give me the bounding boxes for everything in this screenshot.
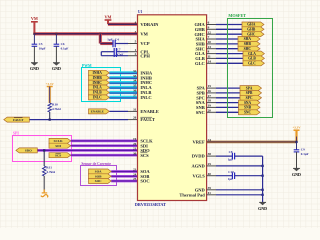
wire gnd bus vertical	[262, 156, 264, 202]
junction VM rail / C6	[55, 33, 57, 35]
svg-text:GND: GND	[258, 206, 267, 211]
port GLB	[243, 56, 264, 61]
svg-text:25: 25	[133, 177, 137, 181]
svg-text:VM: VM	[31, 16, 38, 21]
junction SDO / R11	[43, 149, 45, 151]
wire AGND to gnd bus	[216, 165, 263, 167]
svg-text:GLA: GLA	[248, 52, 256, 56]
wire C5 lower lead	[33, 46, 35, 62]
svg-text:SCS: SCS	[55, 153, 61, 157]
svg-text:C7: C7	[117, 48, 121, 52]
wire SHA wire	[216, 38, 238, 40]
svg-text:C4: C4	[115, 37, 119, 41]
svg-text:34: 34	[133, 79, 137, 83]
wire C9 to GND	[296, 152, 298, 169]
pin name FAULT	[140, 117, 155, 122]
wire VREF wire	[207, 141, 297, 144]
port GHB	[242, 27, 264, 32]
wire +3.3V stem to VREF	[295, 130, 297, 142]
port GLA	[243, 51, 264, 56]
svg-text:GLC: GLC	[248, 62, 256, 66]
svg-text:14: 14	[208, 59, 212, 63]
wire C7 left link vertical	[100, 52, 102, 56]
wire SPA wire	[216, 87, 240, 89]
wire +3.3V stem to R10	[49, 87, 51, 104]
svg-text:10: 10	[208, 40, 212, 44]
svg-text:SOA: SOA	[95, 170, 102, 174]
svg-text:30: 30	[133, 151, 137, 155]
pin name INLA	[140, 85, 152, 90]
svg-text:DVDD: DVDD	[192, 154, 206, 159]
port SNC	[239, 110, 261, 115]
capacitor C7	[113, 48, 115, 57]
box MOSFET group	[228, 19, 273, 118]
pin stub SNA	[207, 102, 216, 104]
svg-text:41: 41	[208, 191, 212, 195]
pin name INHB	[140, 75, 152, 80]
port SOC	[89, 179, 112, 184]
svg-text:0.1µF: 0.1µF	[301, 152, 309, 156]
svg-text:GND: GND	[52, 66, 61, 71]
wire GLC wire	[216, 62, 243, 64]
svg-text:40: 40	[208, 172, 212, 176]
port INLA	[89, 85, 110, 90]
pin name GHA	[195, 22, 206, 27]
svg-text:VCP: VCP	[140, 41, 149, 46]
wire SPB wire	[216, 92, 240, 94]
pin stub Thermal Pad	[207, 194, 216, 196]
junction VM rail / VCP branch	[99, 33, 101, 35]
pin stub VGLS	[207, 175, 216, 177]
power port wave ground (R11)	[41, 193, 48, 198]
wire R10 to FAULT net	[49, 112, 51, 120]
svg-text:18: 18	[208, 99, 212, 103]
svg-text:VREF: VREF	[193, 140, 206, 145]
pin name VDRAIN	[140, 22, 159, 27]
pin stub CPH	[128, 55, 138, 57]
wire C6 lower lead	[55, 46, 57, 62]
pin name SHC	[196, 46, 205, 51]
capacitor C10	[231, 172, 233, 179]
svg-text:GHA: GHA	[247, 23, 256, 27]
svg-text:GLB: GLB	[248, 57, 256, 61]
pin stub FAULT	[128, 119, 138, 121]
box Sensor de Corrente group	[81, 166, 117, 186]
svg-text:13: 13	[208, 45, 212, 49]
ground GND under C5	[30, 63, 39, 71]
pin name SPC	[196, 95, 205, 100]
wire SHB wire	[216, 43, 238, 45]
svg-text:GHC: GHC	[247, 32, 256, 36]
junction bus / GND	[261, 189, 263, 191]
svg-text:SPC: SPC	[246, 96, 253, 100]
svg-text:SHC: SHC	[244, 47, 252, 51]
svg-text:SDO: SDO	[25, 149, 32, 153]
port SPB	[240, 90, 262, 95]
junction VREF / C9	[295, 141, 297, 143]
wire ENABLE wire	[109, 110, 128, 112]
pin name SOC	[140, 179, 149, 184]
wire C4 to VCP pin	[115, 43, 128, 45]
port INHB	[89, 75, 110, 80]
pin name DVDD	[192, 154, 206, 159]
wire VM power stem	[33, 22, 35, 34]
wire GLB wire	[216, 57, 243, 59]
svg-text:36: 36	[133, 89, 137, 93]
svg-text:19: 19	[208, 104, 212, 108]
svg-text:CPH: CPH	[140, 53, 150, 58]
svg-text:ENABLE: ENABLE	[91, 110, 104, 114]
wire SNC wire	[216, 111, 239, 113]
svg-text:17: 17	[208, 94, 212, 98]
pin name GLA	[195, 51, 206, 56]
svg-text:33: 33	[133, 74, 137, 78]
svg-text:32: 32	[133, 69, 137, 73]
ground GND under C9	[292, 168, 301, 176]
wire INHB	[109, 76, 137, 80]
svg-text:39: 39	[208, 186, 212, 190]
wire VGLS to C10	[216, 175, 232, 177]
wire C7 left link horizontal	[101, 51, 114, 53]
svg-text:+3.3V: +3.3V	[292, 126, 301, 130]
svg-text:INLA: INLA	[93, 86, 102, 90]
svg-text:C6: C6	[61, 42, 65, 46]
svg-text:MOSFET: MOSFET	[228, 13, 246, 18]
svg-text:SOC: SOC	[95, 179, 102, 183]
svg-text:INLC: INLC	[93, 96, 102, 100]
svg-text:16: 16	[208, 89, 212, 93]
svg-text:11: 11	[208, 55, 211, 59]
box PWM group	[82, 68, 121, 102]
power port +3.3V (R10)	[46, 82, 55, 87]
svg-text:SNA: SNA	[244, 101, 252, 105]
pin name SNC	[196, 110, 205, 115]
svg-text:Thermal Pad: Thermal Pad	[179, 192, 205, 197]
svg-text:SDI: SDI	[55, 144, 61, 148]
wire INHA	[109, 71, 137, 75]
wire C6 upper lead	[55, 34, 57, 44]
svg-text:INLB: INLB	[93, 91, 102, 95]
wire GHC wire	[216, 33, 242, 35]
power port +3.3V (VREF)	[292, 126, 301, 131]
port SOB	[89, 174, 112, 179]
resistor R10	[48, 103, 61, 112]
svg-text:AGND: AGND	[192, 164, 206, 169]
wire GLA wire	[216, 53, 243, 55]
svg-text:C5: C5	[39, 42, 43, 46]
pin stub GLB	[207, 57, 216, 59]
wire SPC wire	[216, 97, 240, 99]
svg-text:19: 19	[133, 137, 137, 141]
wire GND pin to bus	[216, 189, 263, 191]
pin name SDI	[140, 143, 148, 148]
svg-text:GND: GND	[292, 172, 301, 177]
svg-text:VM: VM	[105, 14, 112, 19]
pin name SNB	[196, 105, 205, 110]
pin stub SNB	[207, 106, 216, 108]
svg-text:U1: U1	[138, 10, 143, 14]
wire VREF to C9	[296, 142, 298, 150]
capacitor C6	[54, 42, 69, 51]
wire INLC	[109, 96, 137, 100]
port INHC	[89, 80, 110, 85]
power port VM (left)	[31, 16, 38, 22]
port ENABLE	[89, 109, 110, 114]
wire INLB	[109, 91, 137, 95]
svg-text:26: 26	[133, 116, 137, 120]
svg-text:INHB: INHB	[93, 76, 103, 80]
port INLC	[89, 95, 110, 100]
svg-text:35: 35	[133, 84, 137, 88]
svg-text:VM: VM	[140, 31, 148, 36]
svg-text:0.1µF: 0.1µF	[61, 46, 69, 50]
pin stub SHC	[207, 48, 216, 50]
pin name SNA	[196, 100, 206, 105]
wire SNB wire	[216, 106, 239, 108]
svg-text:GHB: GHB	[247, 28, 256, 32]
svg-text:15: 15	[208, 84, 212, 88]
junction bus / Thermal pad	[261, 194, 263, 196]
wire VM rail horizontal	[34, 32, 137, 35]
port SCLK	[49, 138, 71, 143]
port SDI	[49, 143, 71, 148]
wire SDO wire	[37, 149, 137, 152]
pin name INLB	[140, 90, 151, 95]
wire CPH wire	[101, 55, 128, 57]
port SHC	[238, 46, 260, 51]
svg-text:SOC: SOC	[140, 179, 149, 184]
svg-text:C9: C9	[301, 147, 305, 151]
wire FAULT wire	[29, 119, 128, 121]
ground GND bottom right	[258, 202, 267, 210]
pin name VGLS	[193, 173, 206, 178]
pin name ENABLE	[140, 109, 159, 114]
ground GND under C6	[52, 63, 61, 71]
port SHA	[238, 37, 260, 42]
wire VM VDRAIN stem	[107, 20, 109, 24]
port GLC	[243, 61, 264, 66]
svg-text:4.7kΩ: 4.7kΩ	[52, 107, 61, 111]
svg-text:ENABLE: ENABLE	[140, 109, 159, 114]
svg-text:21: 21	[133, 147, 137, 151]
wire VCP branch vertical	[99, 34, 102, 44]
pin name GLB	[195, 56, 205, 61]
svg-text:VGLS: VGLS	[193, 173, 206, 178]
pin stub GLA	[207, 53, 216, 55]
svg-text:INHA: INHA	[93, 71, 103, 75]
pin stub GLC	[207, 62, 216, 64]
svg-text:SNB: SNB	[244, 106, 252, 110]
junction bus / VGLS	[261, 175, 263, 177]
wire DVDD to C8	[216, 155, 232, 157]
svg-text:SOB: SOB	[95, 175, 102, 179]
svg-text:SCLK: SCLK	[54, 139, 63, 143]
svg-text:20: 20	[133, 142, 137, 146]
wire SCS wire	[71, 154, 138, 157]
port SDO	[16, 148, 37, 153]
pin name CPL	[140, 49, 149, 54]
pin stub CPL	[128, 51, 138, 53]
wire VCP branch horizontal	[100, 42, 112, 45]
pin name SOA	[140, 169, 150, 174]
wire GHA wire	[216, 24, 242, 26]
wire CPL wire	[116, 51, 128, 53]
pin name GND	[195, 187, 206, 192]
pin name SHB	[196, 42, 205, 47]
svg-text:25: 25	[208, 162, 212, 166]
pin stub SHB	[207, 43, 216, 45]
svg-text:4.7kΩ: 4.7kΩ	[46, 170, 55, 174]
svg-text:SHA: SHA	[244, 37, 252, 41]
svg-text:20: 20	[208, 108, 212, 112]
wire C10 to gnd bus	[235, 175, 263, 177]
wire SDI wire	[71, 144, 138, 147]
pin name INHA	[140, 70, 153, 75]
port SOA	[89, 169, 112, 174]
pin name CPH	[140, 53, 150, 58]
svg-text:12: 12	[208, 30, 212, 34]
svg-text:31: 31	[133, 108, 137, 112]
port SNA	[239, 100, 261, 105]
junction bus / AGND	[261, 165, 263, 167]
svg-text:GND: GND	[30, 66, 39, 71]
box SPI group	[13, 136, 72, 162]
capacitor C9	[294, 147, 309, 156]
svg-text:24: 24	[133, 172, 137, 176]
svg-text:37: 37	[133, 94, 137, 98]
svg-text:SHB: SHB	[244, 42, 252, 46]
wire Thermal pad to bus	[216, 194, 263, 196]
pin name Thermal Pad	[179, 192, 205, 197]
wire GHB wire	[216, 28, 242, 30]
port SPA	[240, 86, 262, 91]
pin name AGND	[192, 164, 206, 169]
svg-text:1µF: 1µF	[107, 37, 112, 41]
svg-text:38: 38	[208, 152, 212, 156]
svg-text:23: 23	[133, 168, 137, 172]
pin name INHC	[140, 80, 152, 85]
pin stub SPA	[207, 87, 216, 89]
port SNB	[239, 105, 261, 110]
svg-text:1µF: 1µF	[228, 158, 233, 162]
port SCS	[49, 153, 71, 158]
pin stub VCP	[128, 43, 138, 45]
svg-text:SCS: SCS	[140, 153, 149, 158]
port INLB	[89, 90, 110, 95]
wire VDRAIN wire	[108, 23, 138, 26]
pin name VREF	[193, 140, 206, 145]
pin name SPA	[197, 86, 206, 91]
pin name GHC	[195, 32, 205, 37]
resistor R11	[43, 166, 56, 176]
pin name SHA	[196, 37, 206, 42]
pin stub SHA	[207, 38, 216, 40]
pin name SOB	[140, 174, 149, 179]
svg-text:SNC: SNC	[244, 111, 252, 115]
port GHA	[242, 22, 264, 27]
svg-text:DRV8353SRTAT: DRV8353SRTAT	[135, 202, 166, 207]
port INHA	[89, 70, 110, 75]
svg-text:C8: C8	[229, 150, 233, 154]
svg-text:GLC: GLC	[195, 61, 205, 66]
svg-text:47nF: 47nF	[117, 53, 124, 57]
port SPC	[240, 95, 262, 100]
svg-text:INLC: INLC	[140, 95, 151, 100]
wire C8 to gnd bus	[235, 155, 263, 157]
pin name SCS	[140, 153, 149, 158]
svg-text:C10: C10	[228, 170, 234, 174]
pin stub GHA	[207, 24, 216, 26]
wire SOB wire	[111, 175, 137, 178]
svg-text:INHC: INHC	[93, 81, 103, 85]
capacitor C5	[32, 42, 46, 51]
svg-text:SNC: SNC	[196, 110, 205, 115]
capacitor C8	[231, 153, 233, 160]
pin name SCLK	[140, 139, 153, 144]
pin stub DVDD	[207, 155, 216, 157]
pin name SDO	[140, 148, 150, 153]
svg-text:1µF: 1µF	[228, 177, 233, 181]
pin stub GND	[207, 189, 216, 191]
pin name SPB	[197, 91, 205, 96]
pin stub GHB	[207, 28, 216, 30]
svg-text:+3.3V: +3.3V	[46, 82, 55, 86]
svg-text:SPB: SPB	[246, 91, 253, 95]
pin stub SPC	[207, 97, 216, 99]
wire SDO to R11	[43, 150, 45, 166]
capacitor C4	[112, 40, 114, 47]
wire SOA wire	[111, 170, 137, 173]
pin name GHB	[195, 27, 205, 32]
svg-text:FAULT: FAULT	[13, 118, 24, 122]
wire C5 upper lead	[33, 34, 35, 44]
pin name GLC	[195, 61, 205, 66]
svg-text:24: 24	[208, 138, 212, 142]
wire INHC	[109, 81, 137, 85]
port GHC	[242, 32, 264, 37]
power port VM (VDRAIN)	[105, 14, 112, 20]
pin stub ENABLE	[128, 110, 138, 112]
svg-text:SPA: SPA	[246, 86, 253, 90]
pin name VM	[140, 31, 148, 36]
junction VM rail / C5	[33, 33, 35, 35]
pin stub SPB	[207, 92, 216, 94]
junction FAULT / R10	[49, 118, 51, 120]
svg-text:VDRAIN: VDRAIN	[140, 22, 159, 27]
pin name INLC	[140, 95, 151, 100]
wire SOC wire	[111, 180, 137, 183]
pin stub SNC	[207, 111, 216, 113]
pin stub AGND	[207, 165, 216, 167]
wire R11 wave stem	[43, 190, 45, 193]
op-amp/driver IC U1 body	[138, 15, 207, 201]
wire SCLK wire	[71, 140, 138, 143]
wire SNA wire	[216, 102, 239, 104]
wire SHC wire	[216, 48, 238, 50]
wire INLA	[109, 86, 137, 90]
pin name VCP	[140, 41, 149, 46]
svg-text:10µF: 10µF	[39, 46, 46, 50]
wire R11 to wave gnd	[43, 176, 45, 190]
svg-text:FAULT: FAULT	[140, 117, 155, 122]
pin stub GHC	[207, 33, 216, 35]
port SHB	[238, 41, 260, 46]
port FAULT	[4, 117, 30, 122]
